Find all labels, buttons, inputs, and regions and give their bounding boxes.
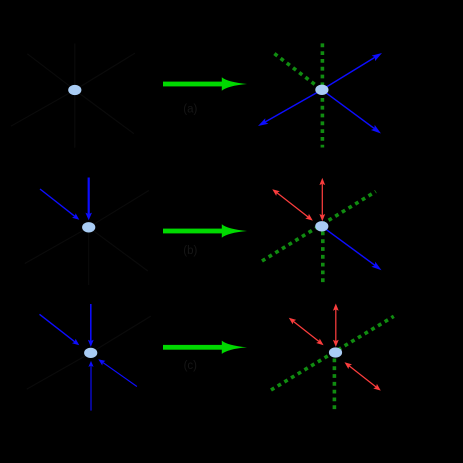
- arrow blue bond from below: [90, 366, 92, 411]
- wire faint lattice ray UR: [91, 316, 151, 353]
- arrow red vibration up-left: [305, 214, 313, 221]
- node A3 (adatom): [84, 348, 97, 358]
- arrow blue translation down-right: [322, 226, 375, 265]
- wire green dashed vertical below: [321, 232, 325, 285]
- arrow red vibration down-right: [345, 362, 353, 369]
- wire faint lattice ray DR: [75, 90, 134, 134]
- wire green dashed vertical axis: [321, 43, 325, 147]
- node B2 (adatom): [315, 221, 328, 231]
- arrow blue bond from top: [88, 178, 90, 215]
- arrow blue bond from up-left: [40, 189, 75, 216]
- arrow blue bond from up-left: [40, 314, 75, 342]
- wire faint lattice ray DL: [27, 353, 91, 389]
- wire faint lattice ray UL: [27, 54, 75, 90]
- arrow red vibration up-left: [316, 339, 323, 346]
- arrow blue translation down-left: [265, 90, 322, 122]
- arrow blue translation up-right: [322, 57, 375, 90]
- wire green dashed vertical below: [333, 359, 337, 411]
- node B1 (adatom): [315, 85, 328, 95]
- arrow big green transition: [163, 229, 223, 234]
- wire faint lattice ray UR: [75, 53, 135, 90]
- arrow red vibration vertical: [333, 340, 339, 347]
- arrow big green transition: [163, 345, 223, 350]
- wire green dashed diagonal axis: [262, 192, 376, 262]
- wire green dashed diagonal axis: [271, 316, 394, 390]
- wire faint lattice ray DL: [25, 227, 89, 263]
- wire faint lattice ray DL: [11, 90, 75, 126]
- svg-text:(c): (c): [184, 360, 198, 372]
- arrow red vibration vertical: [319, 214, 325, 221]
- wire faint lattice ray S: [74, 90, 76, 148]
- wire faint lattice ray DR: [89, 227, 148, 271]
- arrow big green transition: [163, 82, 223, 87]
- node A2 (adatom): [82, 222, 95, 232]
- arrow blue bond from down-right: [103, 363, 137, 387]
- svg-text:(a): (a): [183, 103, 197, 115]
- wire faint lattice ray N: [74, 44, 76, 91]
- node B3 (adatom): [329, 347, 342, 357]
- wire green dashed up-left axis: [274, 54, 322, 90]
- svg-text:(b): (b): [183, 245, 197, 257]
- wire faint lattice ray S: [88, 227, 90, 285]
- arrow blue bond from top: [90, 304, 92, 341]
- arrow blue translation down-right: [322, 90, 375, 129]
- node A1 (adatom): [68, 85, 81, 95]
- wire faint lattice ray UR: [89, 191, 149, 228]
